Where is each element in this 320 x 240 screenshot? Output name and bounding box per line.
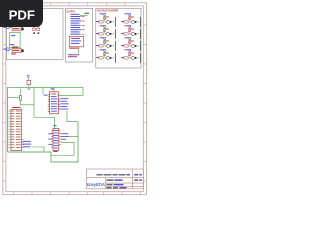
wire U3 bottom stub (77, 49, 79, 53)
resistor R4b (104, 53, 106, 56)
pin P5 (129, 13, 131, 15)
connector P2 (11, 107, 22, 151)
diode D3 (110, 45, 112, 47)
capacitor C2 polarized (27, 75, 31, 87)
resistor R4 (99, 57, 103, 59)
value label U2 (53, 151, 58, 152)
value label (106, 41, 109, 42)
title block sheet text (134, 179, 142, 181)
cathode bus bar (140, 53, 142, 63)
value label CNTR (68, 54, 80, 57)
pin P6 (129, 25, 131, 27)
label U2 (53, 125, 56, 126)
wire U1 right drop (67, 111, 78, 122)
PDF badge (0, 0, 43, 27)
wire (137, 21, 139, 23)
transistor Q3 (106, 44, 109, 47)
wire stub connector top (8, 96, 20, 98)
value label (106, 53, 109, 54)
voltage divider unit 2 (96, 25, 116, 39)
resistor R2 (99, 33, 103, 35)
wire (129, 16, 131, 21)
net label below bus (27, 88, 30, 91)
value label (106, 17, 109, 18)
connector P1 pin stubs (82, 16, 85, 34)
wire (104, 52, 106, 57)
transistor Q7 (131, 44, 134, 47)
wire CNTR supply (80, 13, 89, 16)
title block row3 text (107, 184, 124, 186)
cathode bus bar (115, 17, 117, 27)
voltage divider unit 4 (96, 49, 116, 63)
resistor R7b (129, 41, 131, 44)
connector J2 (3, 48, 12, 51)
wire (104, 28, 106, 33)
fuse F1 (12, 25, 24, 31)
net label N6A (125, 25, 129, 26)
wire main bus top (8, 86, 84, 88)
wire U1 top feed (53, 87, 55, 92)
net label N6B (121, 33, 124, 34)
net labels P2 right (23, 141, 31, 147)
sheet frame inner border (6, 6, 143, 192)
cathode bus bar (115, 53, 117, 63)
transistor Q5 (131, 20, 134, 23)
wire R22 to branch (20, 100, 34, 105)
diode D11 (33, 26, 36, 34)
voltage divider unit 8 (121, 49, 141, 63)
voltage divider unit 5 (121, 13, 141, 27)
transistor Q6 (131, 32, 134, 35)
net label N7B (121, 45, 124, 46)
wire (104, 40, 106, 45)
resistor R6 (124, 33, 128, 35)
diode D6 (135, 33, 137, 35)
wire (104, 16, 106, 21)
title block row2 text (107, 179, 123, 181)
net label N3B (96, 45, 99, 46)
transistor Q1 (106, 20, 109, 23)
voltage divider unit 7 (121, 37, 141, 51)
svg-text:VOLTAGE DIVIDER: VOLTAGE DIVIDER (97, 9, 119, 12)
resistor R1 (99, 21, 103, 23)
cathode bus bar (140, 17, 142, 27)
title block row lines (87, 169, 144, 189)
svg-text:EasyEDA: EasyEDA (87, 182, 105, 187)
frame reference tick marks (3, 3, 147, 195)
cathode bus bar (115, 29, 117, 39)
wire branch left (34, 87, 55, 128)
title block row4 text (107, 187, 127, 188)
net label N3A (100, 37, 104, 38)
resistor R5 (124, 21, 128, 23)
wire (137, 45, 139, 47)
net label N8A (125, 49, 129, 50)
section box: power supply (7, 8, 64, 59)
resistor R2b (104, 29, 106, 32)
net label N5A (125, 13, 129, 14)
net label N1B (96, 21, 99, 22)
svg-text:PDF: PDF (9, 8, 35, 23)
section box: VOLTAGE DIVIDER (96, 8, 141, 68)
wire right loop (8, 122, 79, 162)
net label N1A (100, 13, 104, 14)
section box: CNTR (66, 8, 93, 62)
diode D2 (110, 33, 112, 35)
resistor R22 (19, 89, 21, 101)
voltage divider unit 1 (96, 13, 116, 27)
svg-text:CNTR: CNTR (66, 9, 75, 13)
wire (112, 45, 114, 47)
wire (137, 33, 139, 35)
wire (112, 57, 114, 59)
IC U3 (69, 36, 83, 48)
value label (131, 17, 134, 18)
logo EasyEDA (87, 182, 105, 187)
IC U2 (53, 129, 59, 151)
connector P1 pin list (71, 14, 82, 35)
IC U1 (50, 92, 59, 114)
cathode bus bar (140, 29, 142, 39)
wire (129, 28, 131, 33)
diode D8 (135, 57, 137, 59)
wire (137, 57, 139, 59)
net label N8B (121, 57, 124, 58)
resistor R7 (124, 45, 128, 47)
IC U2 pin stubs (51, 131, 61, 148)
resistor R8 (124, 57, 128, 59)
connector P2 left pin wires (8, 111, 11, 148)
diode D4 (110, 57, 112, 59)
wire main bus left (7, 87, 9, 152)
net labels U1 right (60, 98, 69, 109)
sheet frame outer border (3, 3, 147, 195)
value label (106, 29, 109, 30)
diode D1 (110, 21, 112, 23)
wire (129, 40, 131, 45)
resistor R1b (104, 17, 106, 20)
connector J1 (3, 26, 12, 29)
value label (131, 41, 134, 42)
title CNTR (66, 9, 75, 13)
wire (112, 21, 114, 23)
wire P2 label link (32, 147, 45, 152)
diode D12 (37, 26, 40, 34)
cathode bus bar (115, 41, 117, 51)
label U1 (51, 88, 55, 89)
net label N2B (96, 33, 99, 34)
resistor R3b (104, 41, 106, 44)
pin P4 (104, 49, 106, 51)
transistor Q8 (131, 56, 134, 59)
net label N4B (96, 57, 99, 58)
fuse F2 (11, 46, 24, 54)
voltage divider unit 3 (96, 37, 116, 51)
net labels U2 right (61, 133, 69, 139)
resistor R3 (99, 45, 103, 47)
wire loop between J1 and J2 (10, 32, 20, 47)
transistor Q2 (106, 32, 109, 35)
wire (129, 52, 131, 57)
transistor Q4 (106, 56, 109, 59)
wire U2 inner loop (51, 142, 74, 155)
net label N4A (100, 49, 104, 50)
title VOLTAGE DIVIDER (97, 9, 119, 12)
net labels U2 left (48, 133, 52, 144)
net label N7A (125, 37, 129, 38)
value label (131, 53, 134, 54)
resistor R8b (129, 53, 131, 56)
pin P8 (129, 49, 131, 51)
diode D5 (135, 21, 137, 23)
pin P1 (104, 13, 106, 15)
connector P2 right pin stubs (22, 139, 24, 147)
title block outline (87, 169, 144, 189)
value label (131, 29, 134, 30)
title block title text (97, 174, 131, 176)
pin P2 (104, 25, 106, 27)
voltage divider unit 6 (121, 25, 141, 39)
IC U1 pin stubs (48, 94, 60, 112)
wire U1 left label drop (42, 87, 44, 94)
connector P2 pin rows (12, 111, 21, 148)
net label N2A (100, 25, 104, 26)
pin P3 (104, 37, 106, 39)
title block rev text (134, 174, 142, 176)
pin P7 (129, 37, 131, 39)
cathode bus bar (140, 41, 142, 51)
wire U2 right link (69, 136, 79, 138)
wire U1 feedback bracket (59, 87, 84, 95)
net label U1 left (44, 95, 48, 96)
net label N5B (121, 21, 124, 22)
resistor R6b (129, 29, 131, 32)
wire (112, 33, 114, 35)
diode D7 (135, 45, 137, 47)
resistor R5b (129, 17, 131, 20)
